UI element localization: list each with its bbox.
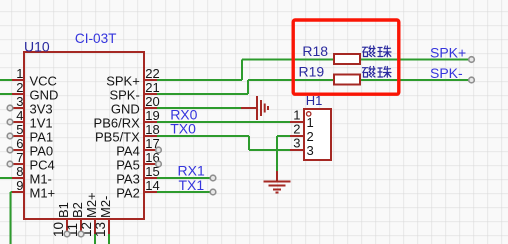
svg-text:M2+: M2+ [84, 192, 99, 218]
svg-text:3: 3 [293, 136, 300, 151]
svg-text:R18: R18 [302, 43, 328, 59]
svg-text:PB6/RX: PB6/RX [94, 115, 141, 130]
svg-text:SPK-: SPK- [430, 65, 463, 81]
svg-text:4: 4 [16, 108, 23, 123]
svg-text:R19: R19 [299, 63, 325, 79]
svg-text:1: 1 [293, 108, 300, 123]
svg-text:1: 1 [307, 115, 314, 130]
svg-text:7: 7 [16, 150, 23, 165]
svg-text:B1: B1 [56, 202, 71, 218]
svg-text:3: 3 [16, 94, 23, 109]
svg-text:B2: B2 [70, 202, 85, 218]
svg-text:2: 2 [307, 129, 314, 144]
svg-text:GND: GND [30, 87, 59, 102]
svg-text:3V3: 3V3 [30, 101, 53, 116]
svg-text:8: 8 [16, 164, 23, 179]
svg-text:PA3: PA3 [116, 171, 140, 186]
svg-text:6: 6 [16, 136, 23, 151]
svg-text:PA4: PA4 [116, 143, 140, 158]
svg-text:M2-: M2- [98, 196, 113, 218]
svg-text:18: 18 [145, 122, 159, 137]
svg-text:RX1: RX1 [178, 163, 205, 179]
svg-text:VCC: VCC [30, 73, 57, 88]
svg-text:22: 22 [145, 66, 159, 81]
svg-text:GND: GND [111, 101, 140, 116]
svg-text:M1+: M1+ [30, 185, 56, 200]
svg-text:2: 2 [16, 80, 23, 95]
svg-text:14: 14 [145, 178, 159, 193]
svg-text:SPK+: SPK+ [430, 45, 466, 61]
svg-text:TX1: TX1 [179, 177, 205, 193]
svg-text:3: 3 [307, 143, 314, 158]
svg-text:U10: U10 [24, 39, 50, 55]
svg-text:SPK+: SPK+ [106, 73, 140, 88]
svg-text:2: 2 [293, 122, 300, 137]
svg-text:20: 20 [145, 94, 159, 109]
svg-text:PA2: PA2 [116, 185, 140, 200]
svg-text:PB5/TX: PB5/TX [95, 129, 140, 144]
svg-text:1: 1 [16, 66, 23, 81]
svg-text:PC4: PC4 [30, 157, 55, 172]
svg-text:1V1: 1V1 [30, 115, 53, 130]
svg-text:PA0: PA0 [30, 143, 54, 158]
svg-text:CI-03T: CI-03T [75, 31, 117, 46]
svg-text:21: 21 [145, 80, 159, 95]
svg-text:5: 5 [16, 122, 23, 137]
svg-text:TX0: TX0 [170, 121, 196, 137]
svg-text:SPK-: SPK- [109, 87, 139, 102]
svg-text:PA1: PA1 [30, 129, 54, 144]
svg-text:19: 19 [145, 108, 159, 123]
svg-text:9: 9 [16, 178, 23, 193]
svg-text:M1-: M1- [30, 171, 52, 186]
svg-text:13: 13 [93, 222, 108, 237]
svg-text:PA5: PA5 [116, 157, 140, 172]
